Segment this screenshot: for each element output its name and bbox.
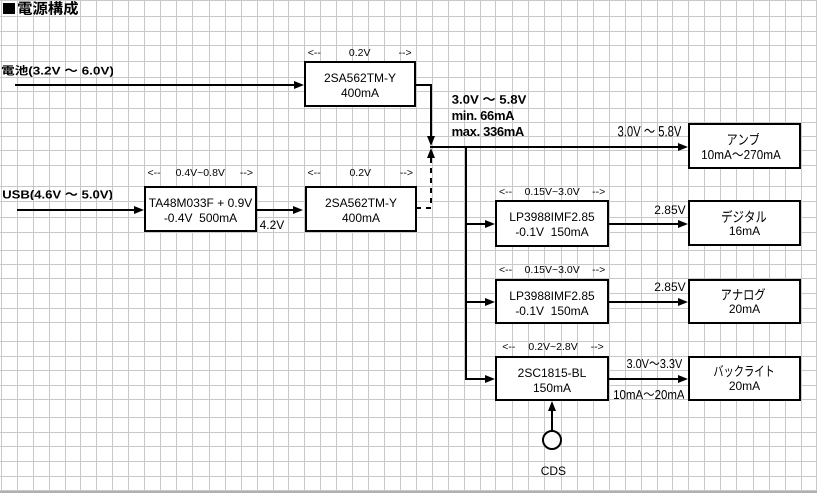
- wire CDS sensor to 2SC1815: [551, 410, 553, 431]
- wire 2SC1815 to backlight: [609, 378, 679, 380]
- top border line: [0, 0, 817, 1]
- label 10mA～20mA: [614, 390, 685, 399]
- wire battery to 2SA562 no.1: [15, 84, 294, 86]
- label 0.15V~3.0V over LP3988 no.2: [499, 265, 605, 276]
- bottom gray bar: [0, 491, 817, 493]
- wire LP3988 no.2 to analog: [609, 301, 679, 303]
- label 3.0V ～ 5.8V at amp: [618, 126, 681, 137]
- load box backlight バックライト: [688, 356, 801, 401]
- label CDS: [541, 465, 566, 477]
- load box digital デジタル: [688, 200, 801, 246]
- CDS sensor circle: [542, 430, 562, 450]
- wire distribution vertical: [465, 146, 467, 380]
- label 2.85V no.2: [654, 281, 685, 293]
- load box amp アンプ: [688, 123, 801, 169]
- wire branch to 2SC1815: [465, 378, 486, 380]
- label 0.4V~0.8V over TA48M033F: [148, 168, 254, 179]
- dashed wire box3 output up to junction: [416, 207, 432, 209]
- label max. 336mA: [452, 125, 524, 138]
- label 0.2V over box1: [308, 48, 412, 59]
- regulator box TA48M033F: [144, 186, 257, 232]
- wire LP3988 no.1 to digital: [609, 223, 679, 225]
- wire branch to LP3988 no.1: [465, 223, 486, 225]
- label 4.2V: [260, 219, 285, 231]
- label 電池(3.2V ～ 6.0V): [2, 65, 113, 77]
- node junction main line: [430, 146, 680, 148]
- wire USB to TA48M033F: [17, 209, 134, 211]
- regulator box LP3988 no.1: [495, 200, 609, 247]
- load box analog アナログ: [688, 279, 801, 324]
- title black square: [3, 3, 15, 14]
- spreadsheet grid: [1, 0, 2, 493]
- label 3.0V ～ 5.8V upper bold: [452, 95, 526, 104]
- transistor box 2SA562TM-Y no.2: [305, 186, 417, 232]
- label 3.0V～3.3V: [627, 359, 682, 368]
- title text 電源構成: [18, 1, 78, 15]
- label USB(4.6V ～ 5.0V): [3, 190, 112, 201]
- label 0.2V over box3: [308, 168, 414, 179]
- transistor box 2SC1815-BL: [495, 356, 609, 401]
- label min. 66mA: [452, 109, 515, 122]
- transistor box 2SA562TM-Y no.1: [304, 61, 416, 107]
- wire branch to LP3988 no.2: [465, 301, 486, 303]
- wire TA48M033F to 2SA562 no.2: [257, 209, 293, 211]
- label 0.2V~2.8V over 2SC1815: [502, 342, 604, 353]
- label 2.85V no.1: [654, 204, 685, 216]
- regulator box LP3988 no.2: [495, 279, 609, 324]
- wire box1 output right then down: [414, 84, 432, 86]
- label 0.15V~3.0V over LP3988 no.1: [499, 187, 605, 198]
